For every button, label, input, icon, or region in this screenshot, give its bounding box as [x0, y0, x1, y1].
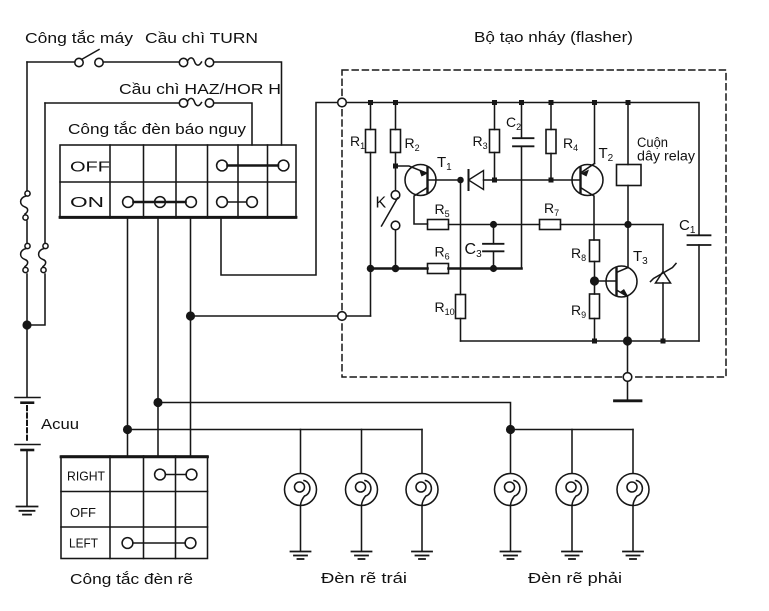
node rail R3: [492, 100, 497, 105]
wire flasher L output: [191, 315, 338, 317]
hazard OFF contacts col5-col7: [217, 160, 289, 171]
wire right lamps bus lower: [511, 429, 634, 431]
zener diode: [651, 225, 677, 342]
ground battery: [17, 507, 38, 515]
transistor T1: [396, 165, 461, 225]
node relay-T3 junction: [625, 222, 631, 228]
lamp R2: [556, 430, 588, 551]
svg-text:RIGHT: RIGHT: [67, 469, 105, 484]
wire hazard col2 down to turn switch: [127, 218, 129, 456]
svg-text:OFF: OFF: [70, 505, 96, 520]
node battery junction: [23, 321, 31, 329]
node flasher input terminal: [338, 98, 347, 107]
node left-bus junction: [124, 426, 132, 434]
wire T3 base: [595, 280, 617, 282]
ground lamp L2: [352, 552, 372, 560]
svg-text:Công tắc đèn báo nguy: Công tắc đèn báo nguy: [68, 121, 247, 138]
svg-text:OFF: OFF: [70, 159, 110, 176]
node base line R3: [492, 178, 497, 183]
wire output to thick-line riser: [346, 315, 370, 317]
switch K: [382, 191, 400, 269]
ground lamp L3: [412, 552, 432, 560]
node rail zener: [661, 339, 666, 344]
node flasher L output junction: [187, 312, 195, 320]
resistor R10: [456, 295, 466, 342]
node base line R4: [549, 178, 554, 183]
capacitor C1: [688, 235, 711, 341]
connector pair on HAZ wire: [39, 243, 48, 272]
connector pair 2 on ignition wire: [21, 243, 30, 272]
wire HAZ feed: [45, 102, 179, 104]
node K bottom thick line: [393, 266, 399, 272]
resistor R9: [590, 294, 600, 341]
wire right lamps bus: [158, 403, 511, 430]
wire bottom rail: [461, 340, 700, 342]
node rail T2 collector: [592, 100, 597, 105]
resistor R8: [590, 240, 600, 294]
wire base line to T2: [495, 179, 581, 181]
wire hazard col4 down to turn switch: [190, 218, 192, 456]
svg-text:ON: ON: [70, 194, 104, 211]
fuse HAZ/HOR: [179, 98, 213, 107]
diode D1: [469, 170, 495, 190]
wire top rail: [346, 103, 699, 235]
node rail R4: [549, 100, 554, 105]
wire ignition feed top: [27, 61, 75, 63]
ignition switch: [75, 50, 103, 67]
resistor R4: [546, 103, 556, 181]
wire left lamps bus: [128, 429, 423, 431]
hazard ON contacts col5-col6: [217, 197, 258, 208]
battery Acuu: [15, 398, 40, 506]
node flasher ground terminal: [623, 373, 632, 382]
svg-text:LEFT: LEFT: [69, 536, 98, 551]
node R2 bottom: [393, 164, 398, 169]
wire thick emitter line: [371, 267, 522, 270]
fuse TURN: [179, 58, 213, 67]
node right-bus junction: [154, 399, 162, 407]
svg-text:K: K: [376, 195, 387, 212]
wire hazard col5 to flasher input: [221, 103, 338, 276]
svg-text:Bộ tạo nháy (flasher): Bộ tạo nháy (flasher): [474, 29, 633, 46]
wire TURN fuse to hazard col7: [214, 62, 282, 145]
resistor R6: [428, 264, 449, 274]
node rail R2: [393, 100, 398, 105]
connector pair on ignition wire: [21, 191, 30, 220]
hazard ON contacts col2-col3-col4: [123, 197, 197, 208]
node C3 bottom: [491, 266, 497, 272]
resistor R1: [366, 103, 376, 317]
svg-text:Đèn rẽ phải: Đèn rẽ phải: [528, 570, 622, 587]
svg-text:Công tắc máy: Công tắc máy: [25, 30, 134, 47]
svg-text:Công tắc đèn rẽ: Công tắc đèn rẽ: [70, 571, 193, 588]
lamp L3: [406, 430, 438, 551]
lamp R3: [617, 430, 649, 551]
transistor T3: [606, 266, 637, 341]
relay coil: [617, 103, 642, 268]
svg-text:Cầu chì TURN: Cầu chì TURN: [145, 30, 258, 47]
lamp L1: [285, 430, 317, 551]
ground lamp R3: [623, 552, 643, 560]
node rail C2: [519, 100, 524, 105]
svg-text:Acuu: Acuu: [41, 416, 79, 433]
node R8 R9 junction: [591, 277, 599, 285]
capacitor C2: [513, 103, 534, 269]
lamp R1: [495, 430, 527, 551]
node rail T3 emitter: [624, 337, 632, 345]
resistor R7: [540, 220, 664, 230]
ground lamp R1: [501, 552, 521, 560]
node rail R9: [592, 339, 597, 344]
wire left vertical battery feed: [26, 62, 28, 397]
capacitor C3: [483, 225, 504, 269]
node diode anode junction: [458, 178, 463, 183]
wire switch to TURN fuse: [103, 61, 179, 63]
wire rail to ground terminal: [627, 341, 629, 373]
flasher dashed box: [342, 70, 726, 377]
wire HAZ fuse to hazard col6: [214, 103, 252, 145]
ground lamp L1: [291, 552, 311, 560]
turn LEFT contacts col2-col4: [122, 538, 196, 549]
wire diode junction to R10: [460, 180, 462, 295]
resistor R3: [490, 103, 500, 181]
svg-text:Cầu chì HAZ/HOR H: Cầu chì HAZ/HOR H: [119, 81, 281, 98]
node thick line left: [368, 266, 374, 272]
resistor R5: [428, 220, 540, 230]
turn signal switch table: [61, 456, 208, 559]
svg-text:Đèn rẽ trái: Đèn rẽ trái: [321, 570, 407, 587]
ground lamp R2: [562, 552, 582, 560]
node C3 top: [491, 222, 497, 228]
svg-text:dây relay: dây relay: [637, 149, 695, 164]
node rail relay: [626, 100, 631, 105]
lamp L2: [346, 430, 378, 551]
ground flasher: [615, 381, 642, 401]
wire hazard col3 down to turn switch: [157, 218, 159, 456]
turn RIGHT contacts col3-col4: [155, 469, 197, 480]
resistor R2: [391, 103, 401, 191]
node rail R1: [368, 100, 373, 105]
hazard switch table: [60, 145, 296, 218]
node right bus corner junction: [507, 426, 515, 434]
transistor T2: [572, 103, 603, 241]
wire HAZ vertical: [27, 103, 45, 325]
node flasher output terminal: [338, 312, 347, 321]
